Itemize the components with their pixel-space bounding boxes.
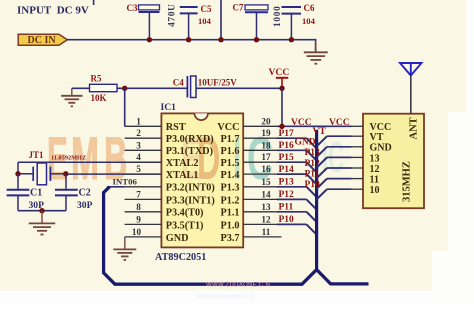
svg-text:13: 13 bbox=[370, 153, 380, 164]
svg-text:P3.4(T0): P3.4(T0) bbox=[166, 208, 204, 219]
svg-text:JT1: JT1 bbox=[29, 150, 45, 160]
junction C7 tap bbox=[254, 37, 259, 42]
svg-text:P3.7: P3.7 bbox=[221, 233, 240, 244]
svg-text:20: 20 bbox=[261, 116, 271, 126]
svg-text:AT89C2051: AT89C2051 bbox=[155, 252, 206, 263]
svg-text:XTAL2: XTAL2 bbox=[166, 158, 199, 169]
capacitor C3 bbox=[139, 5, 160, 10]
module pin 12 bbox=[352, 167, 364, 169]
IC pin 16 P1.4 bbox=[243, 173, 277, 175]
svg-text:XTAL1: XTAL1 bbox=[166, 170, 199, 181]
svg-text:C1: C1 bbox=[30, 187, 42, 198]
module pin 10 bbox=[352, 188, 364, 190]
svg-text:P16: P16 bbox=[279, 141, 295, 151]
wire rail drop to ground bbox=[315, 39, 317, 52]
junction R5/C4/pin1 node bbox=[122, 86, 127, 91]
svg-text:INT06: INT06 bbox=[113, 176, 138, 186]
svg-text:11.0592MHZ: 11.0592MHZ bbox=[51, 154, 86, 161]
svg-text:P1.7: P1.7 bbox=[221, 134, 240, 145]
svg-text:P3.5(T1): P3.5(T1) bbox=[166, 220, 204, 231]
capacitor C2 bbox=[65, 174, 67, 189]
IC pin 14 P1.2 bbox=[243, 198, 277, 200]
wire net P12 from pin 14 bbox=[277, 198, 307, 200]
svg-text:P10: P10 bbox=[305, 180, 321, 190]
svg-text:P15: P15 bbox=[279, 153, 295, 163]
svg-text:C6: C6 bbox=[304, 3, 315, 13]
capacitor C7 bbox=[245, 5, 268, 10]
svg-text:C5: C5 bbox=[201, 4, 212, 14]
port DC IN bbox=[18, 34, 67, 45]
junction C5 tap bbox=[186, 37, 191, 42]
junction C3 tap bbox=[147, 37, 152, 42]
wire gnd to R5 bbox=[72, 87, 90, 89]
svg-text:7: 7 bbox=[136, 189, 141, 199]
capacitor C1 bbox=[17, 174, 19, 189]
wire net VT to module bbox=[317, 136, 327, 146]
wire pin20 VCC to module bbox=[277, 125, 352, 127]
svg-text:GND: GND bbox=[370, 143, 392, 154]
svg-text:IC1: IC1 bbox=[161, 102, 177, 113]
ground crystal bbox=[29, 211, 56, 235]
svg-text:P3.0(RXD): P3.0(RXD) bbox=[166, 134, 214, 145]
wire net P16 from pin 18 bbox=[277, 149, 307, 151]
wire net P13 to module bbox=[317, 157, 327, 167]
svg-text:P1.4: P1.4 bbox=[221, 170, 240, 181]
svg-text:P1.3: P1.3 bbox=[221, 183, 240, 194]
svg-text:470U: 470U bbox=[168, 3, 178, 27]
svg-text:P14: P14 bbox=[279, 165, 295, 175]
wire net P14 from pin 16 bbox=[277, 173, 307, 175]
svg-text:10K: 10K bbox=[91, 93, 107, 103]
capacitor C4 bbox=[186, 76, 188, 98]
IC pin 12 P1.0 bbox=[243, 223, 277, 225]
svg-text:9: 9 bbox=[136, 214, 141, 224]
svg-text:WWW.ZUDAONE.C.N: WWW.ZUDAONE.C.N bbox=[206, 283, 270, 289]
svg-text:P1.6: P1.6 bbox=[221, 146, 240, 157]
IC pin 6 P3.2(INT0) bbox=[125, 186, 162, 188]
module U2 315MHZ bbox=[363, 114, 424, 209]
svg-text:VT: VT bbox=[313, 127, 327, 137]
junction VCC node bbox=[279, 86, 284, 91]
svg-text:C2: C2 bbox=[79, 187, 91, 198]
svg-text:P1.5: P1.5 bbox=[221, 158, 240, 169]
svg-text:P12: P12 bbox=[305, 159, 321, 169]
ground pin 10 bbox=[113, 237, 136, 260]
bus vertical bbox=[315, 130, 318, 270]
wire XTAL1 to pin 5 bbox=[66, 173, 162, 175]
svg-text:P11: P11 bbox=[279, 203, 294, 213]
svg-text:1: 1 bbox=[136, 116, 141, 126]
IC pin 18 P1.6 bbox=[243, 149, 277, 151]
svg-text:18: 18 bbox=[261, 140, 271, 150]
wire net P11 from pin 13 bbox=[277, 211, 307, 213]
wire C1-C2 bottom bbox=[18, 210, 66, 212]
junction top wire tap bbox=[218, 37, 223, 42]
svg-text:C7: C7 bbox=[233, 3, 244, 13]
svg-text:315MHZ: 315MHZ bbox=[401, 161, 412, 202]
svg-text:P1.1: P1.1 bbox=[221, 208, 240, 219]
svg-text:11: 11 bbox=[370, 175, 379, 186]
capacitor C6 bbox=[282, 6, 302, 8]
IC pin 10 GND bbox=[125, 236, 162, 238]
junction crystal right node bbox=[63, 171, 68, 176]
svg-text:WWW.ZUDAONE.C.N: WWW.ZUDAONE.C.N bbox=[196, 294, 254, 300]
svg-text:12: 12 bbox=[261, 214, 271, 224]
IC pin 17 P1.5 bbox=[243, 161, 277, 163]
ground R5 left bbox=[61, 88, 83, 106]
svg-text:P1.0: P1.0 bbox=[221, 220, 240, 231]
IC pin 2 P3.0(RXD) bbox=[125, 137, 162, 139]
wire net P11 to module bbox=[317, 179, 327, 189]
IC pin 11 P3.7 bbox=[243, 236, 281, 238]
module label ANT bbox=[409, 117, 420, 139]
svg-text:P1.2: P1.2 bbox=[221, 195, 240, 206]
svg-text:GND: GND bbox=[166, 233, 189, 244]
svg-text:VCC: VCC bbox=[269, 67, 290, 78]
junction cap gnd node bbox=[39, 208, 44, 213]
svg-text:14: 14 bbox=[261, 189, 271, 199]
module pin VT bbox=[352, 135, 364, 137]
IC pin 1 RST bbox=[125, 125, 162, 127]
antenna bbox=[400, 63, 422, 76]
wire C4 to VCC node bbox=[196, 87, 282, 89]
IC pin 8 P3.4(T0) bbox=[125, 211, 162, 213]
svg-text:VCC: VCC bbox=[291, 118, 312, 128]
crystal JT1 bbox=[37, 163, 46, 185]
wire down to pin 1 bbox=[124, 88, 126, 126]
junction crystal left node bbox=[15, 171, 20, 176]
svg-text:P10: P10 bbox=[279, 215, 295, 225]
svg-text:12: 12 bbox=[370, 164, 380, 175]
wire VCC down to pin 20 bbox=[281, 88, 283, 126]
wire net GND to module bbox=[317, 147, 327, 157]
IC pin 20 VCC bbox=[243, 125, 277, 127]
svg-text:5: 5 bbox=[136, 164, 141, 174]
svg-text:P3.3(INT1): P3.3(INT1) bbox=[166, 195, 215, 206]
svg-text:ANT: ANT bbox=[409, 117, 420, 139]
svg-text:2: 2 bbox=[136, 128, 141, 138]
IC pin 13 P1.1 bbox=[243, 211, 277, 213]
module label 315MHZ bbox=[401, 161, 412, 202]
watermark letters EDI over IC bbox=[181, 125, 241, 192]
svg-text:13: 13 bbox=[261, 202, 271, 212]
svg-text:GND: GND bbox=[295, 138, 316, 148]
resistor R5 bbox=[90, 84, 118, 91]
svg-text:19: 19 bbox=[261, 128, 271, 138]
svg-text:10: 10 bbox=[370, 185, 380, 196]
svg-text:3: 3 bbox=[136, 140, 141, 150]
svg-text:30P: 30P bbox=[77, 200, 93, 211]
svg-text:11: 11 bbox=[262, 227, 271, 237]
edge artifacts bbox=[466, 0, 474, 304]
svg-text:C4: C4 bbox=[173, 77, 184, 87]
IC pin 7 P3.3(INT1) bbox=[125, 198, 162, 200]
svg-text:C3: C3 bbox=[127, 3, 138, 13]
svg-text:P13: P13 bbox=[279, 178, 295, 188]
wire net P10 to module bbox=[317, 189, 327, 199]
svg-text:10: 10 bbox=[132, 227, 142, 237]
svg-text:8: 8 bbox=[136, 202, 141, 212]
svg-text:INPUT DC 9V: INPUT DC 9V bbox=[17, 5, 89, 17]
svg-text:10UF/25V: 10UF/25V bbox=[198, 77, 237, 87]
wire XTAL2 to pin 4 bbox=[18, 161, 161, 163]
svg-text:4: 4 bbox=[136, 152, 141, 162]
svg-text:VT: VT bbox=[370, 132, 384, 143]
op IC U1 AT89C2051 body bbox=[161, 113, 243, 247]
wire big loop INT06/bus bottom bbox=[104, 187, 369, 284]
module pin 13 bbox=[352, 156, 364, 158]
wire to top edge (regulator) bbox=[220, 0, 222, 40]
svg-text:P11: P11 bbox=[305, 169, 320, 179]
IC pin 4 XTAL2 bbox=[125, 161, 162, 163]
wire net P10 from pin 12 bbox=[277, 223, 307, 225]
wire top rail from DC IN bbox=[67, 39, 315, 41]
svg-text:104: 104 bbox=[302, 16, 316, 26]
svg-text:1000: 1000 bbox=[272, 5, 282, 27]
svg-text:P13: P13 bbox=[305, 148, 321, 158]
capacitor C5 bbox=[180, 6, 198, 8]
svg-text:P3.1(TXD): P3.1(TXD) bbox=[166, 146, 213, 157]
svg-text:RST: RST bbox=[166, 122, 186, 133]
IC pin 9 P3.5(T1) bbox=[125, 223, 162, 225]
wire stub top edge bbox=[93, 0, 95, 5]
svg-text:17: 17 bbox=[261, 152, 271, 162]
wire INT06 to pin 6 bbox=[107, 186, 125, 188]
wire R5 to C4 bbox=[117, 87, 187, 89]
svg-text:VCC: VCC bbox=[217, 122, 239, 133]
svg-text:16: 16 bbox=[261, 164, 271, 174]
wire left node up bbox=[17, 162, 19, 174]
wire net P15 from pin 17 bbox=[277, 161, 307, 163]
svg-text:104: 104 bbox=[198, 16, 212, 26]
svg-text:R5: R5 bbox=[91, 74, 102, 84]
svg-text:P17: P17 bbox=[279, 129, 295, 139]
svg-text:DC IN: DC IN bbox=[28, 35, 57, 46]
wire net P13 from pin 15 bbox=[277, 186, 307, 188]
ground top rail bbox=[304, 40, 328, 64]
module pin 11 bbox=[352, 178, 364, 180]
junction pin20 VCC node bbox=[279, 124, 284, 129]
watermark letters EMB (peach) bbox=[47, 125, 344, 192]
svg-text:P12: P12 bbox=[279, 190, 295, 200]
IC pin 5 XTAL1 bbox=[125, 173, 162, 175]
junction C6 tap bbox=[289, 37, 294, 42]
module pin VCC bbox=[352, 125, 364, 127]
svg-text:VCC: VCC bbox=[329, 118, 350, 128]
module pin GND bbox=[352, 146, 364, 148]
wire net P17 from pin 19 bbox=[277, 137, 307, 139]
svg-text:15: 15 bbox=[261, 177, 271, 187]
svg-text:P3.2(INT0): P3.2(INT0) bbox=[166, 183, 215, 194]
IC pin 19 P1.7 bbox=[243, 137, 277, 139]
IC pin 3 P3.1(TXD) bbox=[125, 149, 162, 151]
wire net P12 to module bbox=[317, 168, 327, 178]
IC pin 15 P1.3 bbox=[243, 186, 277, 188]
